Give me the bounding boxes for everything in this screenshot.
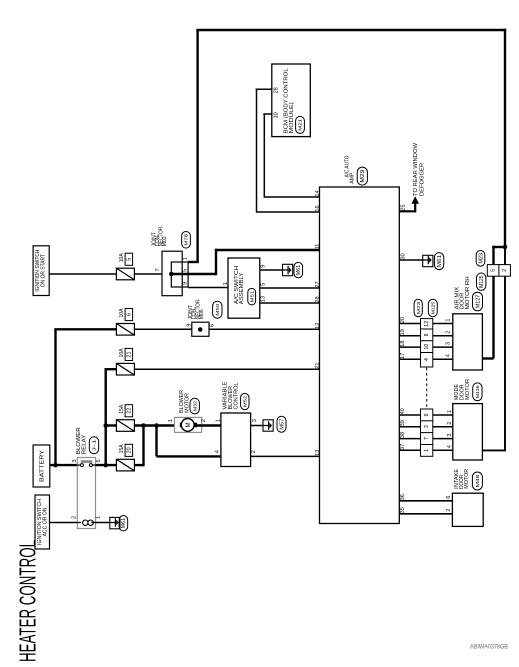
title HEATER CONTROL — [15, 540, 41, 662]
svg-text:RELAY: RELAY — [82, 434, 88, 454]
svg-text:1: 1 — [445, 318, 451, 321]
connector label J-1 — [89, 437, 98, 454]
dashed connector continuation — [426, 368, 428, 408]
svg-text:HEATER CONTROL: HEATER CONTROL — [15, 540, 41, 662]
svg-text:M78: M78 — [184, 234, 190, 246]
svg-text:3: 3 — [424, 425, 430, 428]
joint connector M02 (M78) — [151, 225, 188, 296]
wire amp pin 18 to air mix motor pin 3 — [399, 346, 453, 348]
svg-text:6: 6 — [446, 496, 452, 499]
wire amp pin 38 to mode motor pin 3 — [399, 438, 453, 440]
connector label M61 — [119, 516, 128, 531]
svg-text:M06: M06 — [199, 309, 205, 319]
svg-text:20: 20 — [127, 447, 133, 453]
svg-text:ACC OR ON: ACC OR ON — [42, 507, 48, 536]
svg-text:ON OR START: ON OR START — [41, 253, 47, 287]
variable blower control M52 — [221, 381, 251, 466]
A/C switch assembly M51 — [228, 258, 260, 318]
svg-text:5: 5 — [127, 258, 133, 261]
svg-text:4: 4 — [447, 445, 453, 448]
intake door motor M48 — [452, 469, 483, 527]
svg-text:30: 30 — [401, 253, 407, 259]
svg-text:M57: M57 — [279, 418, 285, 429]
wire fuse F1 to joint connector M02 pin 7 — [134, 273, 171, 275]
svg-text:3: 3 — [252, 419, 258, 422]
svg-text:4: 4 — [215, 450, 221, 453]
svg-text:25: 25 — [401, 204, 407, 210]
svg-text:M125: M125 — [479, 275, 485, 288]
wire amp pin 30 to connector M61 — [399, 259, 422, 261]
connector label M29 — [357, 167, 367, 185]
svg-text:M61: M61 — [296, 265, 302, 276]
svg-text:J-1: J-1 — [92, 439, 98, 452]
svg-text:14: 14 — [315, 190, 321, 196]
svg-text:1: 1 — [447, 410, 453, 413]
svg-text:ASSEMBLY: ASSEMBLY — [239, 272, 245, 304]
connector label M61 — [434, 253, 443, 270]
wire relay contact — [77, 464, 116, 466]
svg-text:6: 6 — [209, 324, 215, 327]
wire amp pin 40 to mode motor pin 1 — [399, 414, 453, 416]
connector symbol M61 at amp pin 30 — [423, 255, 433, 266]
svg-text:ABIWA0378GB: ABIWA0378GB — [470, 644, 509, 651]
wire BCM pin 28 to A/C amp pin 16 — [256, 89, 320, 213]
wire relay coil internal — [77, 522, 95, 524]
connector label M136 — [473, 383, 482, 401]
wire F4 row to blower motor — [105, 404, 181, 431]
wire BCM pin 10 to A/C amp pin 14 — [263, 113, 319, 198]
svg-text:13: 13 — [260, 296, 266, 302]
svg-text:12: 12 — [424, 321, 430, 327]
svg-text:17: 17 — [400, 353, 406, 359]
node junction dot M02 — [169, 272, 174, 277]
node junction dot VBC pin4 branch — [154, 423, 159, 428]
svg-text:15A: 15A — [119, 404, 125, 413]
svg-text:11: 11 — [315, 244, 321, 250]
svg-text:4: 4 — [424, 358, 430, 361]
svg-text:10A: 10A — [119, 253, 125, 262]
wire feed branch to in-line connector cell 5 — [482, 246, 505, 359]
connector label M78 — [182, 232, 191, 249]
svg-text:1: 1 — [168, 419, 174, 422]
connector label M52 — [241, 393, 249, 409]
svg-text:AMP.: AMP. — [349, 171, 355, 183]
svg-text:2: 2 — [447, 422, 453, 425]
connector label M125 — [477, 273, 486, 290]
svg-text:36: 36 — [400, 494, 406, 500]
wire relay pin 1 to connector M61 — [96, 522, 111, 524]
fuse F3 10A No.21 — [116, 348, 134, 375]
blower relay J-1 — [76, 427, 95, 528]
wire ignition ON/START to fuse F1 — [49, 273, 116, 275]
svg-text:21: 21 — [315, 362, 321, 368]
svg-text:M61: M61 — [121, 518, 127, 529]
svg-text:6: 6 — [127, 313, 133, 316]
svg-text:MOTOR: MOTOR — [465, 379, 471, 400]
svg-text:MOTOR: MOTOR — [464, 469, 470, 489]
svg-text:39: 39 — [400, 420, 406, 426]
svg-text:M: M — [185, 422, 192, 427]
svg-text:5: 5 — [260, 283, 266, 286]
svg-text:M61: M61 — [437, 255, 443, 267]
svg-text:18: 18 — [400, 340, 406, 346]
svg-text:M125: M125 — [430, 301, 435, 314]
svg-text:1: 1 — [424, 449, 430, 452]
svg-text:2: 2 — [445, 331, 451, 334]
connector label M61 — [294, 262, 303, 277]
svg-text:9: 9 — [260, 265, 266, 268]
wire amp pin 35 to intake motor pin 2 — [399, 513, 452, 515]
svg-text:22: 22 — [127, 408, 133, 414]
svg-text:8: 8 — [424, 333, 430, 336]
wire VBC pin 3 to connector M57 — [251, 425, 263, 427]
svg-text:1: 1 — [223, 282, 229, 285]
wire branch to variable blower control pin 4 — [157, 424, 221, 456]
svg-text:27: 27 — [315, 281, 321, 287]
fuse F5 15A No.20 — [116, 444, 134, 471]
air mix door motor RH M127 — [453, 276, 483, 370]
connector symbol M61 at relay — [110, 517, 120, 528]
svg-text:7: 7 — [155, 268, 161, 271]
connector label M23 — [414, 299, 422, 316]
svg-text:13: 13 — [315, 450, 321, 456]
wire fuse F2 to joint connector M06 — [134, 328, 191, 330]
svg-text:M52: M52 — [243, 396, 249, 408]
svg-text:37: 37 — [400, 444, 406, 450]
svg-text:21: 21 — [127, 351, 133, 357]
svg-text:TO REAR WINDOW: TO REAR WINDOW — [413, 142, 419, 196]
BCM (body control module) M21 — [272, 64, 311, 137]
svg-text:M50: M50 — [215, 303, 221, 315]
svg-text:3: 3 — [445, 342, 451, 345]
connector label M51 — [248, 288, 256, 305]
wire amp pin 36 to intake motor pin 6 — [399, 500, 452, 502]
svg-text:10A: 10A — [119, 308, 125, 317]
node junction dot battery — [53, 463, 58, 468]
in-line connector M23/M125 cells 5 and 2 — [487, 265, 510, 277]
svg-text:CONTROL: CONTROL — [233, 383, 239, 410]
svg-text:12: 12 — [315, 323, 321, 329]
wire M06 to A/C amp pin 12 — [209, 328, 320, 330]
svg-text:M48: M48 — [475, 474, 481, 487]
connector symbol M61 at A/C switch — [283, 264, 293, 275]
svg-text:M23: M23 — [478, 253, 484, 264]
joint connector M06 (M50) — [188, 298, 209, 336]
svg-text:5: 5 — [96, 459, 102, 462]
node junction dot riser at relay output — [103, 463, 108, 468]
connector label M32 — [190, 398, 199, 414]
wire amp pin 25 to rear window defogger — [399, 142, 425, 212]
svg-text:5: 5 — [491, 269, 497, 272]
svg-text:28: 28 — [315, 296, 321, 302]
wire top feed loop from joint connector M02 pin 1 to in-line connector M23 — [196, 29, 506, 262]
svg-text:2: 2 — [502, 269, 508, 272]
wire A/C switch pin 13 to A/C amp pin 28 — [260, 302, 320, 304]
svg-text:5: 5 — [182, 269, 188, 272]
svg-text:2: 2 — [201, 419, 207, 422]
svg-text:MOTOR RH: MOTOR RH — [465, 276, 471, 309]
svg-text:40: 40 — [400, 408, 406, 414]
svg-text:38: 38 — [400, 432, 406, 438]
wire VBC pin 2 to A/C amp pin 13 — [251, 455, 320, 457]
svg-text:10A: 10A — [119, 348, 125, 357]
svg-text:BATTERY: BATTERY — [39, 449, 45, 482]
svg-text:3: 3 — [72, 459, 78, 462]
wire ignition ACC to relay coil pin 2 — [50, 522, 78, 524]
wire blower motor to VBC pin 1 — [197, 424, 221, 426]
node junction dot riser at F4 row — [103, 423, 108, 428]
wire M02 pin 9 to A/C switch pin 1 — [188, 287, 228, 289]
node junction dot M06 — [198, 327, 203, 332]
svg-text:10: 10 — [273, 112, 279, 118]
connector label M48 — [472, 472, 482, 490]
in-line connector M23/M125 cells 12 8 10 4 — [421, 319, 433, 367]
wire A/C switch pin 9 to connector M61 — [260, 269, 283, 271]
svg-text:2: 2 — [446, 509, 452, 512]
connector label M23 — [476, 250, 485, 266]
wire F5 output riser — [134, 424, 143, 466]
svg-text:DEFOGGER: DEFOGGER — [419, 163, 425, 196]
wire amp pin 37 to mode motor pin 4 — [399, 449, 453, 451]
wire amp pin 39 to mode motor pin 2 — [399, 426, 453, 428]
wire M02 pin 5 to A/C amp pin 11 — [171, 249, 319, 275]
connector label M50 — [213, 301, 222, 318]
ignition switch ON or START — [33, 246, 49, 296]
svg-text:19: 19 — [400, 329, 406, 335]
svg-text:20: 20 — [400, 317, 406, 323]
fuse F1 10A No.5 — [116, 253, 134, 280]
svg-text:MODULE): MODULE) — [289, 102, 295, 133]
wire A/C switch pin 5 to A/C amp pin 27 — [260, 287, 320, 289]
wire feed cell 2 down to mode door motor pin 5 — [482, 247, 506, 450]
connector label M21 — [296, 116, 305, 133]
svg-text:3: 3 — [447, 433, 453, 436]
svg-text:M02: M02 — [162, 236, 168, 246]
svg-text:15A: 15A — [119, 444, 125, 453]
node junction dot right feed split — [503, 245, 508, 250]
svg-text:9: 9 — [182, 282, 188, 285]
svg-text:M51: M51 — [249, 290, 255, 302]
node junction dot F5 riser — [141, 423, 146, 428]
mode door motor M136 — [453, 379, 483, 460]
svg-text:10: 10 — [424, 344, 430, 350]
fuse F2 10A No.6 — [116, 308, 134, 335]
ignition switch ACC or ON — [35, 495, 50, 549]
connector label M127 — [473, 292, 483, 311]
svg-text:16: 16 — [315, 205, 321, 211]
connector label M57 — [277, 416, 286, 432]
svg-text:1: 1 — [216, 419, 222, 422]
A/C auto amp M29 — [320, 155, 400, 524]
in-line connector cells 9 3 7 1 — [421, 409, 433, 456]
svg-text:M127: M127 — [475, 294, 481, 308]
svg-text:M23: M23 — [416, 301, 421, 314]
svg-text:2: 2 — [251, 450, 257, 453]
svg-text:M21: M21 — [298, 118, 304, 130]
svg-text:4: 4 — [445, 354, 451, 357]
wire amp pin 19 to air mix motor pin 2 — [399, 335, 453, 337]
wire amp pin 17 to air mix motor pin 4 — [399, 358, 453, 360]
battery — [33, 445, 50, 487]
svg-text:M32: M32 — [192, 400, 198, 411]
svg-text:2: 2 — [71, 516, 77, 519]
svg-text:M29: M29 — [360, 169, 366, 182]
svg-text:35: 35 — [400, 507, 406, 513]
connector label M125 — [428, 299, 437, 316]
svg-text:28: 28 — [273, 87, 279, 93]
svg-text:9: 9 — [186, 324, 192, 327]
wire fuse F3 to A/C amp pin 21 — [134, 368, 319, 370]
wire amp pin 20 to air mix motor pin 1 — [399, 323, 453, 325]
svg-text:7: 7 — [424, 437, 430, 440]
wire relay output riser to fuse F3 — [105, 369, 117, 466]
wire battery feed to fuse F2 row — [50, 329, 117, 466]
svg-text:1: 1 — [96, 516, 102, 519]
svg-text:M136: M136 — [475, 385, 480, 398]
svg-text:1: 1 — [182, 257, 188, 260]
wire M02 pin 1 up to top feed — [188, 261, 199, 263]
connector symbol M57 — [263, 420, 273, 431]
svg-text:9: 9 — [424, 413, 430, 416]
blower motor M32 — [175, 390, 202, 433]
